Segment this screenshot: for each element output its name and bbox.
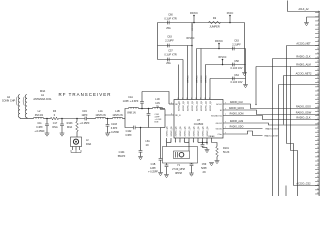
svg-text:C60: C60 bbox=[168, 14, 173, 17]
svg-text:C104: C104 bbox=[119, 151, 125, 154]
svg-text:R103: R103 bbox=[67, 122, 73, 125]
svg-text:RADIO_GDO1: RADIO_GDO1 bbox=[229, 107, 245, 110]
svg-text:RF_N: RF_N bbox=[175, 115, 181, 117]
svg-text:RADIO_SOM: RADIO_SOM bbox=[230, 113, 244, 116]
svg-text:44: 44 bbox=[317, 188, 319, 190]
svg-text:L1A: L1A bbox=[98, 110, 103, 113]
svg-text:RADIO_GDW: RADIO_GDW bbox=[296, 112, 312, 115]
svg-text:8: 8 bbox=[200, 98, 201, 100]
svg-text:XOSC_Q1: XOSC_Q1 bbox=[207, 126, 209, 137]
svg-text:12N: 12N bbox=[155, 102, 160, 105]
svg-text:32: 32 bbox=[317, 139, 319, 141]
svg-text:XOSC_Q1: XOSC_Q1 bbox=[180, 126, 182, 137]
svg-text:12NH 2N: 12NH 2N bbox=[95, 114, 105, 117]
svg-text:C11: C11 bbox=[37, 122, 42, 125]
svg-text:XOSC_Q1: XOSC_Q1 bbox=[202, 126, 204, 137]
svg-text:21: 21 bbox=[317, 94, 319, 96]
svg-text:B1N: B1N bbox=[155, 122, 159, 124]
svg-text:23: 23 bbox=[317, 102, 319, 104]
svg-text:DNA: DNA bbox=[67, 126, 73, 129]
svg-text:8: 8 bbox=[178, 98, 179, 100]
svg-text:RFVCC: RFVCC bbox=[192, 23, 194, 31]
svg-text:25: 25 bbox=[317, 110, 319, 112]
svg-text:+-0.25PF: +-0.25PF bbox=[79, 122, 90, 125]
svg-text:RADIO_CLK: RADIO_CLK bbox=[296, 117, 311, 120]
svg-text:25A: 25A bbox=[166, 62, 171, 65]
svg-text:XOSC_Q1: XOSC_Q1 bbox=[184, 126, 186, 137]
svg-text:R101: R101 bbox=[223, 147, 229, 150]
svg-text:8: 8 bbox=[205, 98, 206, 100]
svg-text:XOSC_Q2: XOSC_Q2 bbox=[187, 100, 189, 111]
svg-text:XOSC_Q1: XOSC_Q1 bbox=[175, 126, 177, 137]
svg-text:+-0.25PF: +-0.25PF bbox=[148, 171, 158, 174]
svg-text:42: 42 bbox=[317, 180, 319, 182]
svg-text:0.1UF X7R: 0.1UF X7R bbox=[164, 18, 177, 21]
svg-text:ANTENNA COIL: ANTENNA COIL bbox=[33, 98, 52, 101]
svg-text:5: 5 bbox=[318, 28, 319, 30]
svg-text:11: 11 bbox=[317, 52, 319, 54]
svg-text:RADIO_SOM: RADIO_SOM bbox=[265, 134, 278, 137]
svg-text:3.3PF: 3.3PF bbox=[111, 127, 118, 130]
svg-text:1N: 1N bbox=[146, 145, 149, 147]
svg-text:52PF: 52PF bbox=[201, 167, 207, 170]
svg-text:XOSC_Q2: XOSC_Q2 bbox=[205, 100, 207, 111]
svg-text:56.2K: 56.2K bbox=[223, 151, 230, 154]
svg-text:45: 45 bbox=[317, 192, 319, 194]
svg-text:28: 28 bbox=[317, 122, 319, 124]
svg-text:3.3PF: 3.3PF bbox=[125, 134, 132, 137]
svg-text:0.1UF 16V: 0.1UF 16V bbox=[231, 81, 243, 84]
svg-text:8N8 1N: 8N8 1N bbox=[127, 112, 136, 115]
svg-text:8: 8 bbox=[209, 98, 210, 100]
svg-text:8: 8 bbox=[191, 98, 192, 100]
svg-text:XOSC_Q1: XOSC_Q1 bbox=[189, 126, 191, 137]
svg-text:RFVCC: RFVCC bbox=[219, 57, 227, 59]
svg-text:10: 10 bbox=[317, 48, 319, 50]
svg-text:DNA: DNA bbox=[40, 90, 46, 93]
svg-text:RADIO_ALM: RADIO_ALM bbox=[296, 64, 310, 67]
svg-text:+-0.25NF: +-0.25NF bbox=[109, 131, 120, 134]
svg-text:4: 4 bbox=[318, 23, 319, 25]
svg-text:0.1UF 16V: 0.1UF 16V bbox=[231, 67, 243, 70]
svg-text:XOSC_Q2: XOSC_Q2 bbox=[210, 100, 212, 111]
svg-text:19: 19 bbox=[317, 85, 319, 87]
svg-text:XOSC_Q1: XOSC_Q1 bbox=[198, 126, 200, 137]
svg-text:40: 40 bbox=[317, 172, 319, 174]
svg-text:L1D: L1D bbox=[155, 98, 160, 101]
svg-text:25A: 25A bbox=[166, 27, 171, 30]
svg-text:12: 12 bbox=[317, 56, 319, 58]
svg-text:RFVCC: RFVCC bbox=[187, 75, 189, 83]
svg-text:27.00_MHZ: 27.00_MHZ bbox=[172, 168, 185, 171]
svg-text:18: 18 bbox=[317, 81, 319, 83]
svg-text:XOSC_Q2: XOSC_Q2 bbox=[201, 100, 203, 111]
svg-text:XOSC_Q1: XOSC_Q1 bbox=[166, 126, 168, 137]
svg-text:16: 16 bbox=[317, 73, 319, 75]
svg-text:C1B: C1B bbox=[151, 163, 156, 166]
svg-text:22: 22 bbox=[317, 98, 319, 100]
svg-text:C17: C17 bbox=[53, 122, 58, 125]
svg-text:C1A: C1A bbox=[128, 96, 133, 99]
svg-text:RADIO_CLK: RADIO_CLK bbox=[230, 101, 243, 104]
svg-text:8: 8 bbox=[182, 98, 183, 100]
svg-text:RFVCC: RFVCC bbox=[215, 41, 223, 43]
svg-text:1UPF +-0.3PF: 1UPF +-0.3PF bbox=[123, 100, 139, 103]
svg-text:43: 43 bbox=[317, 184, 319, 186]
svg-text:31: 31 bbox=[317, 135, 319, 137]
svg-text:XOSC_Q1: XOSC_Q1 bbox=[171, 126, 173, 137]
svg-text:8: 8 bbox=[196, 98, 197, 100]
svg-text:8: 8 bbox=[318, 40, 319, 42]
svg-text:DVCC: DVCC bbox=[227, 13, 234, 15]
svg-text:C102: C102 bbox=[126, 130, 132, 133]
svg-text:3N3 1N: 3N3 1N bbox=[35, 114, 44, 117]
svg-text:36: 36 bbox=[317, 155, 319, 157]
svg-text:GDO2: GDO2 bbox=[216, 123, 223, 125]
svg-text:RADIO_CLK: RADIO_CLK bbox=[296, 56, 311, 59]
svg-text:1: 1 bbox=[193, 141, 194, 143]
svg-text:41: 41 bbox=[317, 176, 319, 178]
svg-text:C19: C19 bbox=[82, 110, 87, 113]
svg-text:CONN CHP: CONN CHP bbox=[2, 100, 16, 103]
svg-text:7: 7 bbox=[318, 36, 319, 38]
svg-text:20: 20 bbox=[317, 89, 319, 91]
svg-text:RF TRANSCEIVER: RF TRANSCEIVER bbox=[59, 92, 112, 97]
svg-text:SI: SI bbox=[220, 110, 222, 112]
svg-text:C63: C63 bbox=[234, 40, 239, 43]
svg-text:30: 30 bbox=[317, 131, 319, 133]
svg-text:RADIO_GDO: RADIO_GDO bbox=[296, 106, 311, 109]
svg-text:12PF: 12PF bbox=[150, 167, 156, 170]
svg-text:C57: C57 bbox=[168, 50, 173, 53]
svg-text:0.1UF X7R: 0.1UF X7R bbox=[164, 54, 177, 57]
svg-text:RADIO_GDO: RADIO_GDO bbox=[266, 127, 279, 130]
svg-text:C64: C64 bbox=[234, 74, 239, 77]
svg-text:0PPM: 0PPM bbox=[175, 172, 182, 175]
svg-text:JUMPER: JUMPER bbox=[209, 25, 219, 28]
svg-text:RADIO_ALM: RADIO_ALM bbox=[230, 120, 243, 123]
svg-text:RFVCC: RFVCC bbox=[201, 75, 203, 83]
svg-text:33: 33 bbox=[317, 143, 319, 145]
svg-text:38: 38 bbox=[317, 164, 319, 166]
svg-text:CC2500: CC2500 bbox=[194, 122, 204, 126]
svg-text:RFVCC: RFVCC bbox=[187, 38, 195, 40]
svg-text:39: 39 bbox=[317, 168, 319, 170]
svg-text:RBIAS: RBIAS bbox=[208, 135, 215, 138]
svg-text:RF_P: RF_P bbox=[175, 104, 181, 106]
svg-text:XOSC_Q2: XOSC_Q2 bbox=[192, 100, 194, 111]
svg-text:RFVCC: RFVCC bbox=[190, 13, 198, 15]
svg-text:1: 1 bbox=[175, 141, 176, 143]
svg-text:1: 1 bbox=[179, 141, 180, 143]
svg-text:SO(GDO1): SO(GDO1) bbox=[211, 115, 222, 117]
svg-text:35: 35 bbox=[317, 151, 319, 153]
svg-text:DNA: DNA bbox=[52, 126, 58, 129]
svg-text:L5A: L5A bbox=[146, 140, 151, 143]
svg-text:XOSC_Q2: XOSC_Q2 bbox=[183, 100, 185, 111]
svg-text:3: 3 bbox=[318, 19, 319, 21]
svg-text:C103: C103 bbox=[111, 123, 117, 126]
svg-text:29: 29 bbox=[317, 126, 319, 128]
svg-text:8: 8 bbox=[187, 98, 188, 100]
svg-text:ACCIO_NET: ACCIO_NET bbox=[296, 43, 311, 46]
svg-text:L1B: L1B bbox=[115, 110, 120, 113]
svg-text:12NH 2N: 12NH 2N bbox=[112, 114, 122, 117]
svg-text:2N: 2N bbox=[202, 171, 205, 174]
svg-text:6: 6 bbox=[318, 32, 319, 34]
svg-text:15: 15 bbox=[317, 69, 319, 71]
svg-text:RFVCC: RFVCC bbox=[205, 75, 207, 83]
svg-text:2.2UPF: 2.2UPF bbox=[232, 44, 241, 47]
svg-text:C63: C63 bbox=[167, 36, 172, 39]
svg-text:ACLK_A2: ACLK_A2 bbox=[298, 8, 309, 11]
svg-text:DNA: DNA bbox=[86, 143, 92, 146]
svg-text:ACCIO_NET2: ACCIO_NET2 bbox=[296, 73, 312, 76]
svg-text:XOSC_Q2: XOSC_Q2 bbox=[196, 100, 198, 111]
svg-text:34: 34 bbox=[317, 147, 319, 149]
svg-text:2.2UPF: 2.2UPF bbox=[165, 40, 174, 43]
svg-text:24: 24 bbox=[317, 106, 319, 108]
svg-text:C58: C58 bbox=[234, 60, 239, 63]
svg-text:U7: U7 bbox=[197, 118, 201, 122]
svg-text:2N: 2N bbox=[156, 106, 159, 109]
svg-text:13: 13 bbox=[317, 61, 319, 63]
svg-text:SCLK: SCLK bbox=[216, 104, 222, 106]
svg-text:XOSC_Q1: XOSC_Q1 bbox=[193, 126, 195, 137]
svg-text:GDO0: GDO0 bbox=[216, 128, 223, 130]
svg-text:12PF: 12PF bbox=[82, 114, 88, 117]
svg-text:ACCIO_CS2: ACCIO_CS2 bbox=[296, 183, 311, 186]
svg-text:C59: C59 bbox=[202, 163, 207, 166]
svg-text:56UPF: 56UPF bbox=[118, 155, 126, 158]
svg-text:RADIO_GDO: RADIO_GDO bbox=[230, 126, 244, 129]
svg-text:0.4PF: 0.4PF bbox=[36, 126, 43, 129]
svg-text:+-0.25NF: +-0.25NF bbox=[34, 130, 45, 133]
svg-text:17: 17 bbox=[317, 77, 319, 79]
svg-text:RFVCC: RFVCC bbox=[196, 75, 198, 83]
svg-text:37: 37 bbox=[317, 159, 319, 161]
